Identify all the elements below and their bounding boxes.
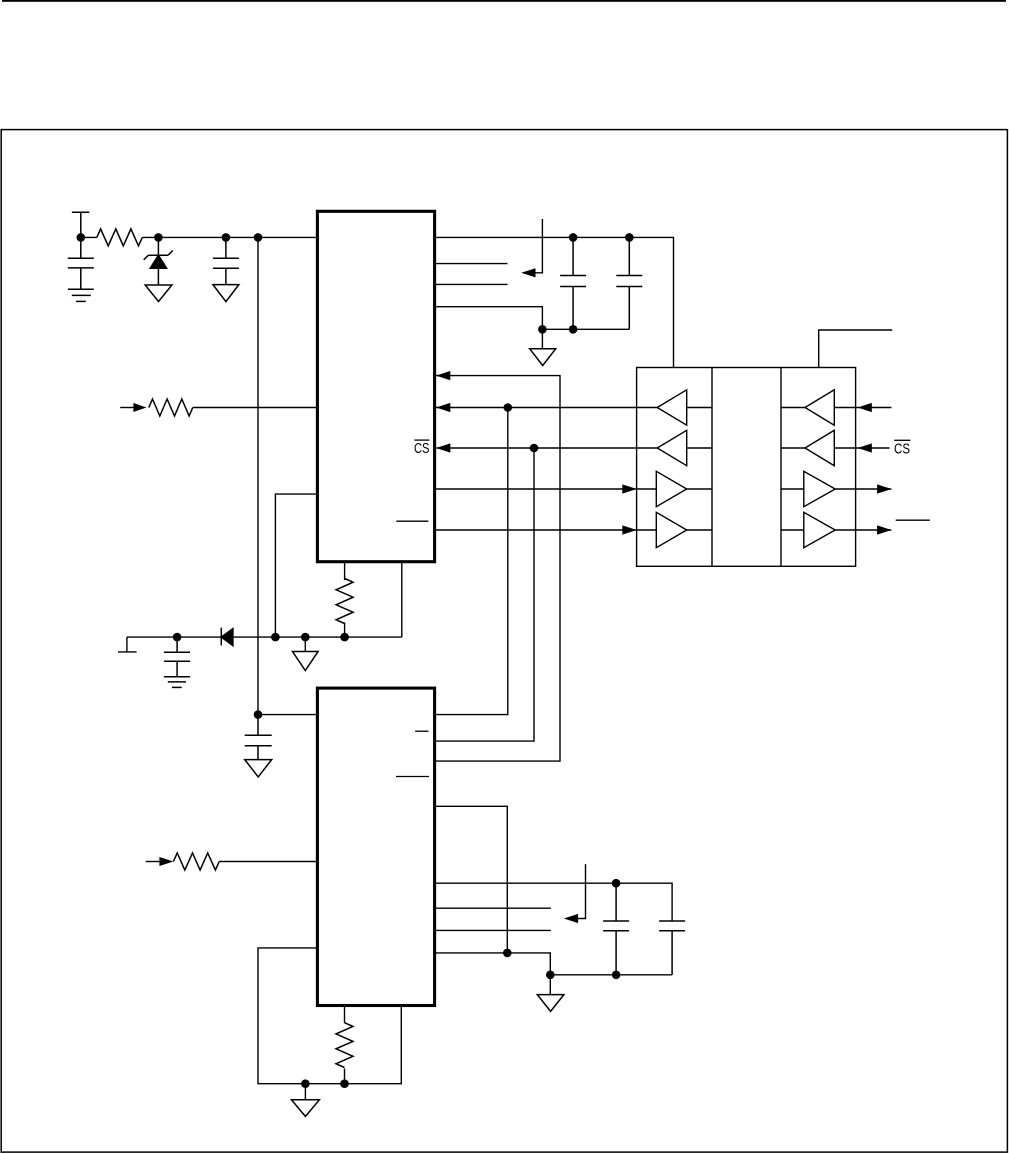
wire row2 SCLK U1 to U3 bbox=[434, 447, 637, 449]
wire cap bottom rail bbox=[542, 328, 629, 330]
wire row4 U1 to U3 bbox=[434, 529, 637, 531]
resistor R1 bbox=[97, 229, 143, 246]
node dots lower caps bbox=[546, 879, 620, 979]
buffer B2 bbox=[637, 430, 712, 465]
top page rule bbox=[2, 0, 1006, 2]
wire row2 drop to U2 bbox=[434, 448, 534, 741]
capacitor C3 bbox=[560, 237, 586, 329]
op IC U1 body bbox=[317, 211, 434, 561]
capacitor C1 bbox=[68, 237, 94, 289]
zener diode D1 bbox=[144, 237, 173, 285]
wire U2 pin r4 down to SS rail bbox=[434, 806, 507, 953]
wire U1 pin to reset node bbox=[275, 494, 317, 637]
label overline in U1 bbox=[396, 520, 428, 522]
ground triangle G4 bbox=[304, 637, 306, 651]
buffer B1 bbox=[637, 390, 712, 425]
annotation arrow clock2 bbox=[578, 864, 585, 918]
wire net V258 vertical bbox=[257, 237, 259, 714]
ground triangle for D1 bbox=[145, 285, 172, 302]
capacitor C5 bbox=[603, 883, 629, 975]
label CS1 overline bbox=[414, 439, 429, 441]
diode D2 bbox=[221, 628, 233, 646]
resistor R5 bbox=[344, 1006, 346, 1084]
node dots cap rails bbox=[538, 233, 633, 334]
ground triangle for C7 bbox=[245, 760, 272, 777]
wire U1 VCC rail to caps and U3 bbox=[434, 237, 674, 367]
node dots reset rail bbox=[173, 633, 349, 642]
node junction dots on VIN rail bbox=[77, 233, 263, 242]
wire row1 drop to U2 bbox=[434, 408, 508, 715]
wire U1 pin4 to cap rail bbox=[434, 307, 542, 330]
wire row3 right with arrow bbox=[856, 488, 892, 490]
wire U1 INT to U2 via x560 bbox=[434, 376, 560, 761]
svg-text:CS: CS bbox=[894, 440, 910, 457]
wire lower cap bottom rail bbox=[550, 974, 672, 976]
svg-text:CS: CS bbox=[414, 440, 430, 457]
wire U1 bottom pin2 down bbox=[401, 561, 403, 637]
capacitor C7 bbox=[245, 715, 272, 760]
ground triangle for C2 bbox=[213, 285, 239, 302]
resistor R3 bbox=[344, 561, 346, 637]
capacitor C6 bbox=[659, 921, 685, 975]
buffer B6 bbox=[781, 430, 856, 465]
buffer B3 bbox=[637, 471, 712, 506]
label overline right of row4 bbox=[896, 519, 930, 521]
ground earth for C8 bbox=[164, 677, 190, 688]
wire U2 loop pin to bottom bbox=[258, 948, 401, 1084]
ground triangle G3 bbox=[541, 329, 543, 349]
ground triangle G7 bbox=[304, 1084, 306, 1100]
wire U2 pin1 left bbox=[258, 714, 317, 716]
capacitor C2 bbox=[213, 237, 239, 284]
wire MISO row1 U1 to U3 bbox=[434, 407, 637, 409]
resistor R4 input with arrow bbox=[146, 861, 318, 863]
annotation arrow clock bbox=[536, 219, 543, 273]
wire row1 right with arrow bbox=[856, 407, 892, 409]
wire reset rail bbox=[127, 636, 402, 638]
capacitor C8 bbox=[164, 637, 190, 677]
wire U2 VCC pin to caps bbox=[434, 883, 672, 921]
wire U2 gnd pin bbox=[434, 953, 550, 975]
wire VIN rail to U1 bbox=[81, 236, 318, 238]
buffer B8 bbox=[781, 512, 856, 547]
ground triangle G6 bbox=[549, 975, 551, 995]
pin XO2 stub bbox=[434, 929, 551, 931]
capacitor C4 bbox=[616, 237, 642, 329]
pin XO stub bbox=[434, 283, 508, 285]
level translator U3 body bbox=[637, 368, 856, 567]
buffer B5 bbox=[781, 390, 856, 425]
ground tap left end bbox=[118, 637, 137, 652]
node VIN terminal bbox=[72, 212, 89, 237]
pin XI2 stub bbox=[434, 907, 551, 909]
resistor R2 input with arrow bbox=[120, 407, 317, 409]
wire row4 right with arrow bbox=[856, 529, 892, 531]
IC U2 body bbox=[317, 688, 434, 1005]
ground earth for C1 bbox=[68, 289, 94, 301]
label overline in U2 b bbox=[396, 776, 429, 778]
wire U3 VL supply bbox=[819, 330, 893, 368]
buffer B4 bbox=[637, 512, 712, 547]
node dots bottom loop bbox=[301, 1079, 349, 1088]
pin XI stub bbox=[434, 263, 508, 265]
label CS2 overline bbox=[894, 439, 910, 441]
wire row2 right with arrow bbox=[856, 447, 890, 449]
wire row3 U1 to U3 bbox=[434, 488, 637, 490]
label overline in U2 a bbox=[415, 730, 428, 732]
buffer B7 bbox=[781, 471, 856, 506]
